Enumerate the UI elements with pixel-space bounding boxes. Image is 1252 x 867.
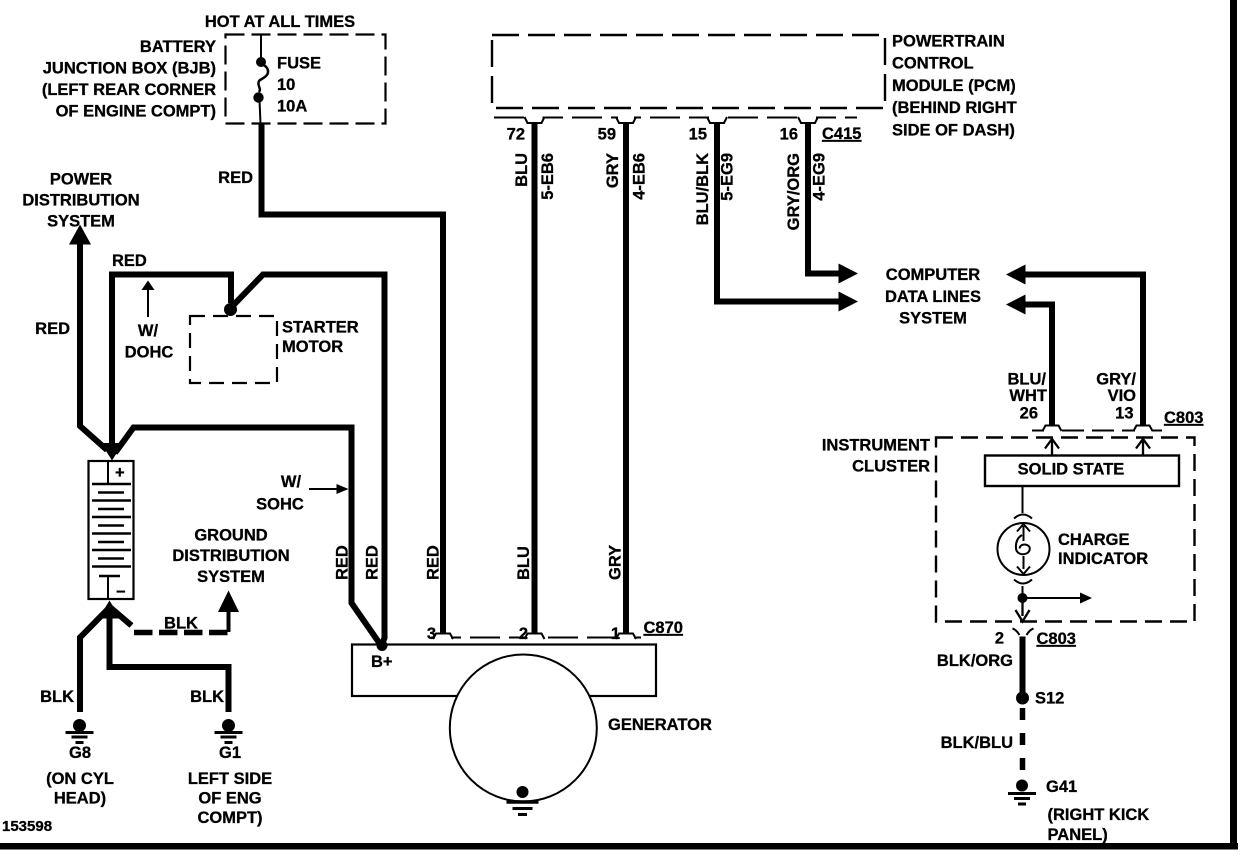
svg-text:CONTROL: CONTROL bbox=[892, 55, 974, 73]
svg-text:13: 13 bbox=[1115, 405, 1133, 423]
svg-text:SOHC: SOHC bbox=[256, 496, 304, 514]
svg-text:COMPUTER: COMPUTER bbox=[886, 266, 981, 284]
wire RED battery to power distribution bbox=[80, 243, 107, 450]
arrow up to ground distribution bbox=[218, 591, 239, 613]
svg-text:RED: RED bbox=[364, 545, 382, 580]
svg-text:POWER: POWER bbox=[50, 171, 112, 189]
pin 72 C415 bbox=[525, 117, 545, 123]
pin 16 C415 bbox=[798, 117, 818, 123]
svg-text:(BEHIND RIGHT: (BEHIND RIGHT bbox=[892, 99, 1017, 117]
svg-text:C870: C870 bbox=[644, 619, 683, 637]
arrow into cluster pin 26 bbox=[1045, 439, 1059, 455]
wire BLK/BLU dashed bbox=[1020, 708, 1026, 780]
svg-text:CLUSTER: CLUSTER bbox=[852, 458, 930, 476]
svg-text:FUSE: FUSE bbox=[277, 55, 321, 73]
instrument cluster box (dashed) bbox=[936, 438, 1195, 622]
arrow into cluster pin 13 bbox=[1136, 439, 1150, 455]
generator circle bbox=[450, 655, 597, 802]
pin 1 C870 bbox=[616, 634, 636, 640]
wire BLU/WHT data lines to cluster 26 bbox=[1024, 305, 1052, 425]
svg-text:RED: RED bbox=[35, 320, 70, 338]
svg-text:BATTERY: BATTERY bbox=[140, 38, 216, 56]
svg-text:DATA LINES: DATA LINES bbox=[885, 288, 981, 306]
svg-text:59: 59 bbox=[598, 126, 616, 144]
connector C803 top dashed line bbox=[1032, 430, 1162, 432]
svg-text:−: − bbox=[116, 583, 126, 601]
svg-text:26: 26 bbox=[1020, 405, 1038, 423]
svg-text:HEAD): HEAD) bbox=[54, 790, 106, 808]
svg-text:W/: W/ bbox=[281, 473, 302, 491]
svg-text:GRY/: GRY/ bbox=[1096, 371, 1136, 389]
ground G1 bbox=[215, 719, 243, 743]
pin 15 C415 bbox=[707, 117, 727, 123]
arrow right bbox=[1023, 597, 1083, 599]
pin 59 C415 bbox=[616, 117, 636, 123]
svg-text:BLK: BLK bbox=[164, 615, 198, 633]
pin 3 C870 bbox=[433, 634, 453, 640]
svg-text:RED: RED bbox=[425, 545, 443, 580]
svg-text:MOTOR: MOTOR bbox=[282, 338, 343, 356]
svg-text:STARTER: STARTER bbox=[282, 319, 359, 337]
svg-text:DISTRIBUTION: DISTRIBUTION bbox=[172, 547, 289, 565]
arrow into battery + bbox=[101, 443, 123, 461]
svg-text:10A: 10A bbox=[277, 98, 307, 116]
svg-text:GRY: GRY bbox=[604, 153, 622, 188]
svg-text:G8: G8 bbox=[69, 744, 91, 762]
svg-text:MODULE (PCM): MODULE (PCM) bbox=[892, 77, 1016, 95]
svg-text:HOT AT ALL TIMES: HOT AT ALL TIMES bbox=[205, 13, 355, 31]
svg-text:RED: RED bbox=[218, 169, 253, 187]
arrow down to pin 2 bbox=[1016, 598, 1030, 622]
wire RED W/SOHC battery to B+ bbox=[115, 428, 380, 645]
svg-text:CHARGE: CHARGE bbox=[1058, 531, 1130, 549]
battery bbox=[89, 461, 134, 601]
svg-text:W/: W/ bbox=[138, 322, 159, 340]
node B+ junction bbox=[377, 640, 388, 651]
svg-text:4-EB6: 4-EB6 bbox=[631, 153, 649, 200]
svg-text:POWERTRAIN: POWERTRAIN bbox=[892, 33, 1005, 51]
svg-text:16: 16 bbox=[780, 126, 798, 144]
svg-text:LEFT SIDE: LEFT SIDE bbox=[188, 770, 272, 788]
svg-text:BLU: BLU bbox=[515, 546, 533, 580]
ground G41 bbox=[1008, 780, 1036, 805]
pin 26 C803 bbox=[1043, 426, 1062, 432]
svg-text:BLK/ORG: BLK/ORG bbox=[937, 652, 1013, 670]
wire BLK to G1 bbox=[110, 605, 229, 712]
svg-text:G1: G1 bbox=[219, 744, 241, 762]
ground at generator bbox=[507, 786, 539, 815]
junction dot starter motor bbox=[224, 303, 237, 316]
right border bbox=[1230, 0, 1237, 850]
svg-text:DISTRIBUTION: DISTRIBUTION bbox=[22, 192, 139, 210]
arrow up at battery - bbox=[99, 601, 121, 619]
pin 2 C870 bbox=[525, 634, 545, 640]
wire A RED battery + up/over to starter junction bbox=[112, 275, 231, 448]
wire BLK dashed to ground distribution bbox=[111, 608, 132, 626]
svg-text:OF ENG: OF ENG bbox=[198, 790, 261, 808]
svg-text:DOHC: DOHC bbox=[125, 344, 174, 362]
svg-text:C803: C803 bbox=[1037, 630, 1076, 648]
solid state box bbox=[985, 456, 1179, 487]
ground G8 bbox=[66, 719, 94, 743]
wire GRY/VIO data lines to cluster 13 bbox=[1024, 275, 1143, 425]
svg-text:BLK: BLK bbox=[190, 688, 224, 706]
svg-text:G41: G41 bbox=[1046, 778, 1077, 796]
svg-text:GENERATOR: GENERATOR bbox=[608, 716, 712, 734]
svg-text:(ON CYL: (ON CYL bbox=[46, 770, 114, 788]
svg-text:SYSTEM: SYSTEM bbox=[197, 568, 265, 586]
arrow W/ DOHC bbox=[142, 281, 155, 291]
svg-text:5-EG9: 5-EG9 bbox=[719, 153, 737, 201]
svg-text:72: 72 bbox=[507, 126, 525, 144]
svg-text:GROUND: GROUND bbox=[194, 527, 267, 545]
svg-text:15: 15 bbox=[689, 126, 707, 144]
svg-text:2: 2 bbox=[519, 625, 528, 643]
svg-text:BLK: BLK bbox=[40, 688, 74, 706]
svg-text:INDICATOR: INDICATOR bbox=[1058, 550, 1148, 568]
svg-text:SYSTEM: SYSTEM bbox=[899, 310, 967, 328]
svg-text:BLU/: BLU/ bbox=[1008, 371, 1047, 389]
splice S12 bbox=[1016, 692, 1029, 705]
svg-text:BLU/BLK: BLU/BLK bbox=[694, 153, 712, 225]
wire GRY PCM 59 to generator 1 bbox=[623, 124, 629, 633]
pin 2 C803 bottom bbox=[1013, 629, 1034, 636]
generator box bbox=[352, 645, 656, 697]
svg-text:C803: C803 bbox=[1164, 409, 1203, 427]
svg-text:PANEL): PANEL) bbox=[1048, 826, 1108, 844]
svg-text:COMPT): COMPT) bbox=[197, 809, 262, 827]
svg-text:JUNCTION BOX (BJB): JUNCTION BOX (BJB) bbox=[43, 60, 216, 78]
svg-text:1: 1 bbox=[611, 625, 620, 643]
starter motor box (dashed) bbox=[190, 316, 277, 383]
svg-text:10: 10 bbox=[277, 76, 295, 94]
svg-text:4-EG9: 4-EG9 bbox=[811, 153, 829, 201]
wire BLU PCM 72 to generator 2 bbox=[532, 124, 538, 633]
arrow W/ SOHC bbox=[309, 488, 338, 490]
svg-text:+: + bbox=[115, 464, 125, 482]
svg-text:RED: RED bbox=[112, 252, 147, 270]
svg-text:OF ENGINE COMPT): OF ENGINE COMPT) bbox=[56, 103, 216, 121]
charge indicator lamp bbox=[998, 486, 1050, 595]
svg-text:C415: C415 bbox=[822, 125, 861, 143]
svg-text:WHT: WHT bbox=[1009, 387, 1047, 405]
svg-text:(LEFT REAR CORNER: (LEFT REAR CORNER bbox=[42, 81, 216, 99]
svg-text:S12: S12 bbox=[1035, 690, 1064, 708]
connector C415 dashed line bbox=[494, 117, 857, 119]
wire BLK to G8 bbox=[80, 607, 110, 712]
svg-text:B+: B+ bbox=[371, 653, 393, 671]
fuse F 10 10A bbox=[253, 35, 321, 124]
wire GRY/ORG PCM 16 to data lines bbox=[808, 124, 840, 274]
svg-text:RED: RED bbox=[334, 545, 352, 580]
svg-text:SIDE OF DASH): SIDE OF DASH) bbox=[892, 122, 1015, 140]
svg-text:5-EB6: 5-EB6 bbox=[539, 153, 557, 200]
pin 13 C803 bbox=[1134, 426, 1153, 432]
svg-text:BLK/BLU: BLK/BLU bbox=[941, 734, 1013, 752]
svg-text:SOLID STATE: SOLID STATE bbox=[1018, 461, 1125, 479]
svg-text:GRY/ORG: GRY/ORG bbox=[785, 153, 803, 230]
powertrain control module box (dashed) bbox=[492, 35, 885, 108]
svg-text:153598: 153598 bbox=[2, 818, 52, 835]
svg-text:BLU: BLU bbox=[513, 153, 531, 187]
svg-text:(RIGHT KICK: (RIGHT KICK bbox=[1048, 806, 1150, 824]
battery junction box BJB (dashed) bbox=[226, 35, 386, 124]
svg-text:VIO: VIO bbox=[1108, 387, 1137, 405]
wire BLU/BLK PCM 15 to data lines bbox=[717, 124, 840, 302]
wire RED fuse to generator pin 3 bbox=[262, 124, 444, 633]
arrow up to power distribution bbox=[69, 225, 91, 245]
wire B RED starter junction to generator B+ bbox=[233, 275, 385, 645]
svg-text:2: 2 bbox=[995, 630, 1004, 648]
wire BLK/ORG bbox=[1020, 637, 1026, 694]
svg-text:GRY: GRY bbox=[607, 545, 625, 580]
connector C870 dashed line bbox=[431, 637, 641, 639]
svg-text:3: 3 bbox=[427, 625, 436, 643]
junction dot bbox=[1018, 593, 1028, 603]
bottom border bbox=[0, 843, 1238, 850]
svg-text:INSTRUMENT: INSTRUMENT bbox=[822, 437, 930, 455]
